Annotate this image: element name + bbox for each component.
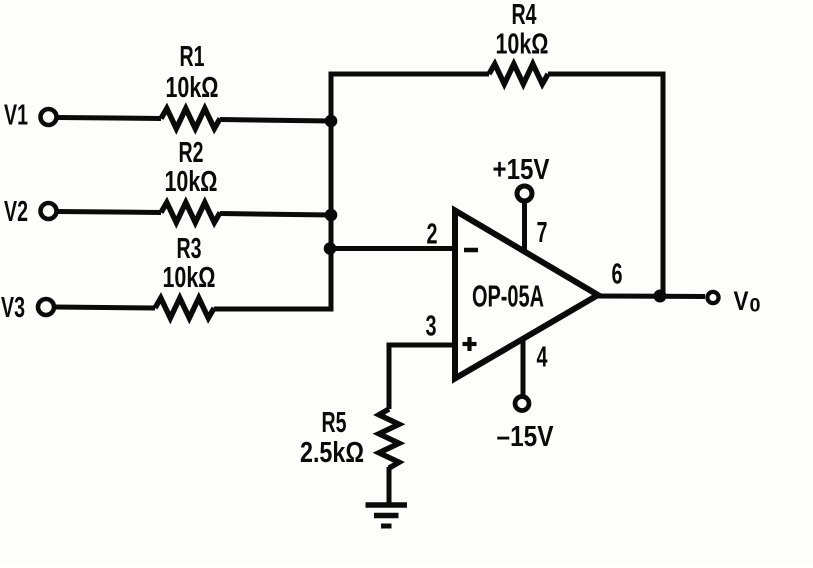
wire V2 to R2: [57, 212, 161, 213]
wire R5 to ground: [387, 467, 392, 505]
svg-text:6: 6: [612, 259, 623, 291]
resistor R1: [161, 109, 220, 129]
svg-text:10kΩ: 10kΩ: [165, 166, 218, 198]
node junction V2: [325, 209, 338, 222]
resistor R4: [489, 64, 548, 84]
wire pin 7 supply: [522, 202, 527, 252]
wire top feedback left segment: [329, 72, 490, 77]
terminal +15V pin 7: [517, 186, 532, 201]
svg-text:V: V: [734, 286, 749, 316]
svg-text:2.5kΩ: 2.5kΩ: [300, 437, 364, 469]
wire V1 to R1: [57, 118, 161, 119]
terminal V1: [41, 109, 57, 125]
wire pin 3 down to R5: [387, 343, 392, 410]
wire V3 to R3: [55, 307, 156, 308]
svg-text:10kΩ: 10kΩ: [163, 262, 216, 294]
resistor R3: [155, 298, 214, 318]
terminal -15V pin 4: [515, 397, 529, 411]
resistor R2: [161, 203, 220, 223]
wire R4 to right corner: [548, 72, 663, 77]
op-amp plus input sign: [463, 342, 477, 346]
ground: [366, 502, 408, 508]
svg-text:+15V: +15V: [493, 154, 551, 186]
svg-text:R1: R1: [180, 41, 205, 73]
node junction inverting input: [324, 242, 337, 255]
svg-text:OP-05A: OP-05A: [472, 279, 544, 314]
wire pin 4 supply: [521, 337, 526, 396]
svg-text:10kΩ: 10kΩ: [496, 29, 549, 61]
op-amp minus input sign: [464, 248, 478, 253]
wire pin 3 stub: [387, 343, 456, 348]
svg-text:R5: R5: [322, 407, 347, 439]
svg-text:10kΩ: 10kΩ: [166, 72, 219, 104]
wire R1 to node: [220, 120, 331, 122]
wire summing bus vertical: [329, 72, 334, 310]
terminal Vo: [707, 292, 718, 303]
terminal V2: [41, 203, 57, 219]
svg-text:V2: V2: [4, 196, 28, 228]
svg-text:V1: V1: [4, 100, 28, 132]
svg-text:4: 4: [537, 342, 548, 374]
svg-text:V3: V3: [1, 292, 25, 324]
svg-text:7: 7: [537, 217, 548, 249]
svg-text:2: 2: [427, 219, 438, 251]
wire R2 to node: [220, 214, 331, 216]
wire node to pin 2: [330, 246, 455, 251]
wire R3 to node bus: [214, 307, 334, 312]
svg-text:R4: R4: [512, 0, 537, 31]
op-amp U1 OP-05A triangle: [455, 211, 598, 379]
svg-text:0: 0: [750, 296, 761, 317]
svg-text:3: 3: [426, 311, 437, 343]
resistor R5: [379, 409, 399, 468]
terminal V3: [38, 299, 54, 315]
node junction output: [654, 290, 667, 303]
wire feedback vertical right: [661, 72, 666, 297]
node junction V1: [325, 115, 338, 128]
svg-text:–15V: –15V: [497, 421, 555, 453]
svg-text:R3: R3: [177, 233, 202, 265]
wire output pin 6: [596, 294, 705, 300]
svg-text:R2: R2: [179, 137, 204, 169]
